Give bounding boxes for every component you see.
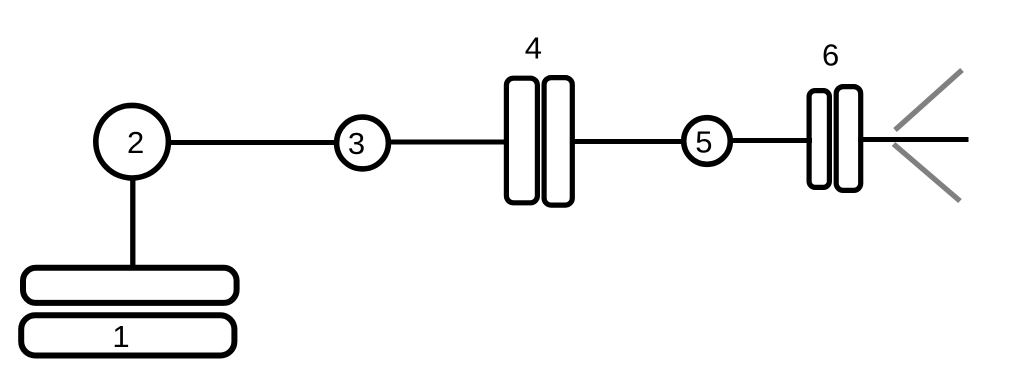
wire: horizontal line from component 5 to component 6 [730, 138, 812, 143]
beam: lower gray diverging ray [894, 144, 961, 201]
beam: upper gray diverging ray [895, 70, 962, 130]
svg-text:4: 4 [525, 31, 542, 66]
component 3: circle node [337, 117, 389, 169]
svg-text:3: 3 [348, 126, 365, 161]
svg-text:2: 2 [127, 125, 144, 160]
component 2: circle node [96, 105, 169, 178]
svg-text:5: 5 [695, 125, 712, 160]
wire: horizontal line from component 4 to component 5 [572, 139, 684, 144]
wire: horizontal line from component 3 to component 4 [388, 140, 508, 145]
component 1: upper rounded box of stacked pair [23, 268, 237, 303]
component 4: left lens plate [506, 78, 537, 203]
component 6: left lens plate [809, 91, 829, 188]
component 1: lower rounded box (labelled 1) [21, 315, 234, 355]
wire: horizontal output line from component 6 to right end [858, 137, 969, 142]
wire: horizontal line from component 2 to component 3 [168, 140, 338, 145]
component 6: right lens plate [836, 87, 861, 191]
wire: vertical line from component 2 down to component 1 [130, 176, 135, 266]
svg-text:1: 1 [112, 319, 129, 354]
component 4: right lens plate [544, 78, 572, 206]
component 5: circle node [684, 118, 731, 165]
svg-text:6: 6 [822, 38, 839, 73]
